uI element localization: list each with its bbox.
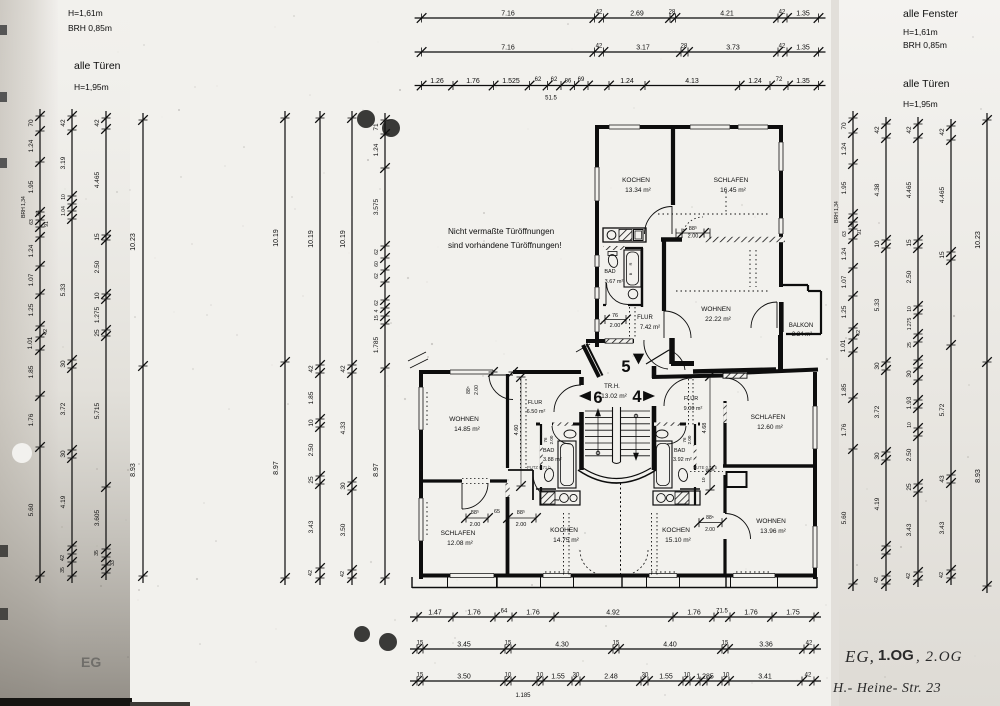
svg-text:70: 70 <box>28 119 35 127</box>
svg-text:3.72: 3.72 <box>874 405 881 418</box>
svg-text:62: 62 <box>374 249 380 255</box>
svg-text:10: 10 <box>907 422 913 428</box>
svg-text:H=1,95m: H=1,95m <box>74 82 109 92</box>
svg-text:BALKON: BALKON <box>789 323 813 329</box>
svg-text:63: 63 <box>29 219 35 225</box>
svg-text:10.19: 10.19 <box>308 230 315 248</box>
svg-text:51.5: 51.5 <box>545 96 557 102</box>
svg-text:3.67 m²: 3.67 m² <box>605 279 624 285</box>
svg-text:1.35: 1.35 <box>796 11 810 18</box>
svg-text:4.19: 4.19 <box>60 495 67 508</box>
svg-text:3.41: 3.41 <box>758 674 772 681</box>
svg-text:TR.H.: TR.H. <box>604 384 620 390</box>
svg-text:12.08 m²: 12.08 m² <box>447 540 473 547</box>
svg-text:FLUR: FLUR <box>528 400 542 406</box>
svg-text:10: 10 <box>94 292 101 300</box>
svg-text:10.19: 10.19 <box>273 229 280 247</box>
svg-text:10: 10 <box>907 306 913 312</box>
svg-text:42: 42 <box>94 119 101 127</box>
svg-text:4.40: 4.40 <box>663 642 677 649</box>
svg-text:2.50: 2.50 <box>906 270 913 283</box>
svg-text:62: 62 <box>374 273 380 279</box>
svg-text:1.275: 1.275 <box>907 318 913 331</box>
svg-text:1.785: 1.785 <box>373 336 380 353</box>
svg-text:1.76: 1.76 <box>526 610 540 617</box>
svg-text:6.50 m²: 6.50 m² <box>527 409 546 415</box>
svg-text:5.33: 5.33 <box>60 283 67 296</box>
svg-text:2.00: 2.00 <box>687 435 692 444</box>
svg-text:4: 4 <box>632 388 642 406</box>
svg-text:2.50: 2.50 <box>906 448 913 461</box>
svg-text:4.13: 4.13 <box>685 78 699 85</box>
svg-text:7.42 m²: 7.42 m² <box>640 325 660 331</box>
svg-text:70: 70 <box>841 122 848 130</box>
svg-text:60: 60 <box>374 261 380 267</box>
svg-text:30: 30 <box>874 362 881 370</box>
svg-text:15: 15 <box>939 251 946 259</box>
svg-text:sind vorhandene Türöffnungen!: sind vorhandene Türöffnungen! <box>448 241 562 250</box>
svg-text:10.23: 10.23 <box>975 231 982 249</box>
svg-text:alle Türen: alle Türen <box>903 78 950 90</box>
svg-text:1.24: 1.24 <box>28 244 35 257</box>
svg-text:30: 30 <box>340 482 347 490</box>
svg-text:10: 10 <box>684 672 691 678</box>
svg-text:1.24: 1.24 <box>748 78 762 85</box>
svg-text:25: 25 <box>308 476 315 484</box>
svg-text:, 2.OG: , 2.OG <box>916 649 962 665</box>
svg-text:1.07: 1.07 <box>28 273 35 286</box>
svg-text:KOCHEN: KOCHEN <box>622 177 650 184</box>
svg-text:1.24: 1.24 <box>373 143 380 156</box>
svg-text:WOHNEN: WOHNEN <box>449 416 479 423</box>
svg-text:2.24 m²: 2.24 m² <box>792 332 812 338</box>
svg-text:3.73: 3.73 <box>726 45 740 52</box>
svg-text:1.93: 1.93 <box>906 396 913 409</box>
svg-text:12.60 m²: 12.60 m² <box>757 424 783 431</box>
svg-text:1.525: 1.525 <box>502 78 520 85</box>
svg-text:KOCHEN: KOCHEN <box>550 527 578 534</box>
svg-text:4.60: 4.60 <box>514 425 520 436</box>
svg-text:3.605: 3.605 <box>94 509 101 526</box>
svg-text:10: 10 <box>537 672 544 678</box>
svg-text:64: 64 <box>501 608 508 614</box>
svg-text:28: 28 <box>669 9 676 15</box>
svg-text:10.23: 10.23 <box>130 233 137 251</box>
svg-text:42: 42 <box>906 573 912 579</box>
svg-text:4.92: 4.92 <box>606 610 620 617</box>
svg-text:1.76: 1.76 <box>841 423 848 436</box>
svg-text:1.76: 1.76 <box>467 610 481 617</box>
svg-text:4: 4 <box>374 309 380 312</box>
svg-text:4.33: 4.33 <box>340 421 347 434</box>
svg-text:H=1,61m: H=1,61m <box>68 8 103 18</box>
svg-text:BRH 1,34: BRH 1,34 <box>21 196 27 218</box>
svg-text:4.465: 4.465 <box>906 181 913 198</box>
svg-text:15: 15 <box>94 233 101 241</box>
svg-text:1.85: 1.85 <box>841 383 848 396</box>
svg-text:2.00: 2.00 <box>610 323 621 329</box>
svg-text:42: 42 <box>939 128 946 136</box>
svg-text:KOCHEN: KOCHEN <box>662 527 690 534</box>
svg-text:63: 63 <box>842 231 848 237</box>
svg-text:44: 44 <box>36 210 42 216</box>
svg-text:25: 25 <box>907 342 913 348</box>
svg-text:14.85 m²: 14.85 m² <box>454 426 480 433</box>
svg-text:BAD: BAD <box>543 448 554 454</box>
svg-text:13.96 m²: 13.96 m² <box>760 528 786 535</box>
svg-text:91: 91 <box>44 221 50 227</box>
svg-text:5.60: 5.60 <box>28 503 35 516</box>
svg-text:5.72: 5.72 <box>939 403 946 416</box>
svg-text:2.69: 2.69 <box>630 11 644 18</box>
svg-text:1.24: 1.24 <box>841 247 848 260</box>
svg-text:8.93: 8.93 <box>130 463 137 477</box>
svg-text:42: 42 <box>60 555 66 561</box>
svg-text:1.24: 1.24 <box>841 142 848 155</box>
svg-text:4.465: 4.465 <box>939 186 946 203</box>
svg-text:3.575: 3.575 <box>373 198 380 215</box>
svg-text:30: 30 <box>573 672 580 678</box>
svg-text:3.43: 3.43 <box>308 520 315 533</box>
svg-text:71: 71 <box>373 123 380 131</box>
svg-text:7.16: 7.16 <box>501 11 515 18</box>
svg-text:88⁵: 88⁵ <box>689 225 697 232</box>
svg-text:4.465: 4.465 <box>94 171 101 188</box>
svg-text:42: 42 <box>939 572 945 578</box>
svg-text:1.35: 1.35 <box>796 45 810 52</box>
svg-text:BRH 0,85m: BRH 0,85m <box>903 40 947 50</box>
svg-text:42: 42 <box>779 43 786 49</box>
svg-text:10: 10 <box>701 477 706 483</box>
svg-text:42: 42 <box>805 672 812 678</box>
svg-text:10: 10 <box>61 194 67 200</box>
svg-text:69: 69 <box>578 77 585 83</box>
svg-text:1.85: 1.85 <box>28 365 35 378</box>
svg-text:1.76: 1.76 <box>466 78 480 85</box>
svg-text:30: 30 <box>874 452 881 460</box>
svg-text:SCHLAFEN: SCHLAFEN <box>751 414 786 421</box>
svg-text:6: 6 <box>593 389 602 407</box>
svg-text:1.01: 1.01 <box>840 339 847 352</box>
svg-text:44: 44 <box>849 221 855 227</box>
svg-text:2.00: 2.00 <box>688 234 699 240</box>
svg-text:42: 42 <box>906 126 913 134</box>
svg-text:15: 15 <box>613 640 620 646</box>
svg-text:2.50: 2.50 <box>308 443 315 456</box>
svg-text:B: B <box>628 272 633 275</box>
svg-text:1.285: 1.285 <box>696 674 714 681</box>
svg-text:16.45 m²: 16.45 m² <box>720 187 746 194</box>
svg-text:14.75 m²: 14.75 m² <box>553 537 579 544</box>
svg-text:3.72: 3.72 <box>60 402 67 415</box>
svg-text:88⁵: 88⁵ <box>706 515 714 521</box>
svg-text:42: 42 <box>340 571 346 577</box>
svg-text:alle Türen: alle Türen <box>74 60 121 72</box>
svg-text:30: 30 <box>642 672 649 678</box>
svg-text:13.02 m²: 13.02 m² <box>601 393 627 400</box>
svg-text:42: 42 <box>806 640 813 646</box>
svg-text:5.715: 5.715 <box>94 402 101 419</box>
svg-text:2.00: 2.00 <box>474 385 480 395</box>
svg-text:H.- Heine- Str. 23: H.- Heine- Str. 23 <box>832 681 941 696</box>
svg-text:88⁵: 88⁵ <box>517 509 525 516</box>
svg-text:35: 35 <box>60 567 66 573</box>
svg-text:3.17: 3.17 <box>636 45 650 52</box>
svg-text:71.5: 71.5 <box>716 608 728 614</box>
svg-text:FLUR: FLUR <box>637 315 653 321</box>
svg-text:FLUR: FLUR <box>684 396 698 402</box>
svg-text:15: 15 <box>374 315 380 321</box>
svg-text:88⁵: 88⁵ <box>471 509 479 516</box>
svg-text:42: 42 <box>308 570 314 576</box>
svg-text:42: 42 <box>308 365 315 373</box>
svg-text:2.00: 2.00 <box>705 527 715 533</box>
svg-text:1.76: 1.76 <box>687 610 701 617</box>
svg-text:91: 91 <box>857 229 863 235</box>
svg-text:42: 42 <box>856 330 862 336</box>
svg-text:H=1,95m: H=1,95m <box>903 99 938 109</box>
svg-text:1.25: 1.25 <box>841 305 848 318</box>
svg-text:1.OG: 1.OG <box>878 647 914 664</box>
svg-text:62: 62 <box>535 77 542 83</box>
svg-text:4.38: 4.38 <box>874 183 881 196</box>
svg-text:1.04: 1.04 <box>61 206 67 216</box>
svg-text:5.60: 5.60 <box>841 511 848 524</box>
svg-text:4.30: 4.30 <box>555 642 569 649</box>
svg-text:1.25: 1.25 <box>28 303 35 316</box>
svg-text:2.00: 2.00 <box>516 522 527 528</box>
svg-text:5.33: 5.33 <box>874 298 881 311</box>
svg-text:1.85: 1.85 <box>308 391 315 404</box>
svg-text:1.95: 1.95 <box>28 180 35 193</box>
svg-text:3.45: 3.45 <box>457 642 471 649</box>
svg-text:2.48: 2.48 <box>604 674 618 681</box>
svg-text:76: 76 <box>543 437 548 443</box>
svg-text:1.76: 1.76 <box>28 413 35 426</box>
svg-text:7.16: 7.16 <box>501 45 515 52</box>
svg-text:BAD: BAD <box>604 269 615 275</box>
svg-text:43: 43 <box>939 475 946 483</box>
svg-text:2.50: 2.50 <box>94 260 101 273</box>
svg-text:30: 30 <box>906 370 913 378</box>
svg-text:15: 15 <box>417 640 424 646</box>
svg-text:4.19: 4.19 <box>874 497 881 510</box>
svg-text:1.76: 1.76 <box>744 610 758 617</box>
svg-text:33: 33 <box>110 560 116 566</box>
svg-text:BRH 1,34: BRH 1,34 <box>834 201 840 223</box>
svg-text:15.10 m²: 15.10 m² <box>665 537 691 544</box>
svg-text:3.50: 3.50 <box>340 523 347 536</box>
svg-text:1.24: 1.24 <box>28 139 35 152</box>
svg-text:WOHNEN: WOHNEN <box>701 306 731 313</box>
svg-text:42: 42 <box>60 119 67 127</box>
svg-text:10: 10 <box>505 672 512 678</box>
svg-text:30: 30 <box>60 360 67 368</box>
svg-text:5: 5 <box>621 358 630 376</box>
svg-text:3.36: 3.36 <box>759 642 773 649</box>
svg-text:15: 15 <box>417 672 424 678</box>
svg-text:28: 28 <box>681 43 688 49</box>
svg-text:1.185: 1.185 <box>515 693 531 699</box>
svg-text:1.24: 1.24 <box>620 78 634 85</box>
svg-text:3.19: 3.19 <box>60 156 67 169</box>
svg-text:WOHNEN: WOHNEN <box>756 518 786 525</box>
svg-text:8.93: 8.93 <box>975 469 982 483</box>
svg-text:BAD: BAD <box>674 448 685 454</box>
svg-text:1.275: 1.275 <box>94 306 101 323</box>
svg-text:13.34 m²: 13.34 m² <box>625 187 651 194</box>
svg-text:4.21: 4.21 <box>720 11 734 18</box>
svg-text:62: 62 <box>551 77 558 83</box>
svg-text:88⁵: 88⁵ <box>466 386 472 394</box>
svg-text:10: 10 <box>723 672 730 678</box>
svg-text:Nicht vermaßte Türöffnungen: Nicht vermaßte Türöffnungen <box>448 227 555 236</box>
svg-text:10: 10 <box>308 419 315 427</box>
svg-text:3.43: 3.43 <box>906 523 913 536</box>
svg-text:1.75: 1.75 <box>786 610 800 617</box>
svg-text:10.19: 10.19 <box>340 230 347 248</box>
svg-text:4.68: 4.68 <box>702 423 708 434</box>
svg-text:BRH 0,85m: BRH 0,85m <box>68 23 112 33</box>
svg-text:1.95: 1.95 <box>841 181 848 194</box>
svg-text:42: 42 <box>874 126 881 134</box>
svg-text:42: 42 <box>596 43 603 49</box>
svg-text:3.43: 3.43 <box>939 521 946 534</box>
svg-text:62: 62 <box>374 300 380 306</box>
svg-text:R: R <box>628 262 633 265</box>
svg-text:1.01: 1.01 <box>27 336 34 349</box>
svg-text:15: 15 <box>906 239 913 247</box>
svg-text:76: 76 <box>612 313 618 319</box>
svg-text:1.47: 1.47 <box>428 610 442 617</box>
svg-text:alle Fenster: alle Fenster <box>903 8 958 20</box>
svg-text:EG: EG <box>81 654 101 670</box>
svg-text:15: 15 <box>505 640 512 646</box>
svg-text:1.07: 1.07 <box>841 275 848 288</box>
svg-text:EG,: EG, <box>844 647 875 666</box>
svg-text:8.97: 8.97 <box>273 461 280 475</box>
svg-text:2.00: 2.00 <box>470 522 481 528</box>
svg-text:15: 15 <box>722 640 729 646</box>
svg-text:42: 42 <box>596 9 603 15</box>
svg-text:35: 35 <box>94 550 100 556</box>
svg-text:42: 42 <box>43 329 49 335</box>
svg-text:22.22 m²: 22.22 m² <box>705 316 731 323</box>
svg-text:1.55: 1.55 <box>551 674 565 681</box>
svg-text:30: 30 <box>60 450 67 458</box>
svg-text:42: 42 <box>340 365 347 373</box>
svg-text:1.55: 1.55 <box>659 674 673 681</box>
svg-text:42: 42 <box>874 577 880 583</box>
svg-text:25: 25 <box>906 483 913 491</box>
svg-text:1.35: 1.35 <box>796 78 810 85</box>
svg-text:25: 25 <box>94 329 101 337</box>
svg-text:H=1,61m: H=1,61m <box>903 27 938 37</box>
svg-text:SCHLAFEN: SCHLAFEN <box>441 530 476 537</box>
svg-text:72: 72 <box>776 77 783 83</box>
svg-text:86: 86 <box>565 79 572 85</box>
svg-text:2.00: 2.00 <box>549 435 554 444</box>
svg-text:3.88 m²: 3.88 m² <box>543 457 562 463</box>
svg-text:65: 65 <box>494 509 500 515</box>
svg-text:42: 42 <box>779 9 786 15</box>
svg-text:3.92 m²: 3.92 m² <box>673 457 692 463</box>
svg-text:SCHLAFEN: SCHLAFEN <box>714 177 749 184</box>
svg-text:8.97: 8.97 <box>373 463 380 477</box>
svg-text:3.50: 3.50 <box>457 674 471 681</box>
svg-text:10: 10 <box>874 240 881 248</box>
svg-text:1.26: 1.26 <box>430 78 444 85</box>
